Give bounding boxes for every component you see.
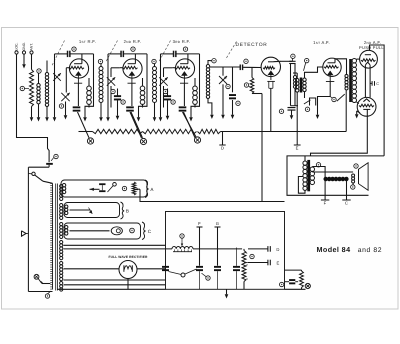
box A pickup coil — [62, 184, 65, 187]
output transformer secondary — [310, 167, 314, 171]
interstage coil label (x=78.5) [1st RF] — [98, 59, 102, 63]
field coil winding — [324, 177, 327, 180]
speaker cone — [359, 163, 369, 191]
bottom bus left segment — [58, 288, 166, 290]
interstage transformer T1 core — [300, 78, 303, 93]
capacitor E — [248, 262, 268, 264]
box B brace — [121, 202, 125, 219]
resistor R1 label circle — [20, 86, 24, 90]
triode tube V132 [2nd RF] — [123, 59, 142, 78]
triode tube V184.5 [3rd RF] — [175, 59, 194, 78]
rectifier filament wire 1 — [64, 279, 166, 281]
output section box — [287, 156, 384, 195]
cathode lead below tube (x=78.5) [1st RF] — [77, 83, 79, 106]
tuning cap label (x=78.5) [1st RF] — [59, 104, 63, 108]
rectifier filament wire 2 — [64, 284, 166, 286]
screen bypass capacitor (x=167) — [167, 89, 169, 96]
tuning capacitor (x=132) [2nd RF] — [107, 77, 115, 85]
heater box A outline — [61, 180, 147, 197]
svg-text:2: 2 — [246, 263, 248, 267]
capacitor block 1 — [162, 266, 169, 268]
shield dashed line stage 1 — [52, 41, 65, 67]
svg-text:ANT.: ANT. — [30, 43, 34, 50]
bus wire to output section — [221, 131, 347, 133]
ground arrow under L2 — [46, 113, 48, 118]
svg-text:D: D — [221, 146, 224, 151]
terminal GND. — [22, 51, 25, 54]
svg-text:Model 84: Model 84 — [317, 245, 351, 254]
heater box B outline — [64, 203, 120, 218]
bias resistor section 1 — [93, 129, 143, 133]
power transformer secondary group 5 — [60, 262, 63, 265]
svg-text:3: 3 — [246, 277, 248, 281]
voice coil label bottom — [351, 185, 355, 189]
ground arrow screen bypass (x=167) — [167, 113, 169, 116]
T2 secondary bottom grid wire — [357, 102, 359, 104]
wire left drop of stage (x=78.5) [1st RF] — [54, 54, 56, 113]
junction circle J2 — [140, 138, 146, 144]
ground arrow detector bypass — [232, 113, 234, 115]
grid bus wire top (x=78.5) [1st RF] — [55, 53, 68, 55]
grid bus vertical right (x=78.5) [1st RF] — [85, 54, 94, 113]
power switch — [29, 166, 50, 168]
grid leak label circle — [244, 83, 248, 87]
svg-text:1ST A.F.: 1ST A.F. — [313, 40, 330, 45]
power transformer core — [55, 184, 57, 291]
1st AF cathode wire — [318, 82, 331, 113]
ground arrow grid-bus (x=132) [2nd RF] — [138, 113, 140, 118]
pilot lamp — [111, 227, 122, 235]
grid lead wire (x=78.5) [1st RF] — [65, 68, 67, 93]
resistor R1 antenna — [30, 70, 34, 107]
tuning cap label (x=184.5) [3rd RF] — [163, 89, 167, 93]
pilot lamp terminal — [130, 228, 135, 233]
B+ feed vertical to bottom section — [261, 94, 263, 202]
rectifier plate feed left — [64, 268, 120, 270]
shield dashed line stage 3 — [159, 41, 171, 63]
box C coil — [65, 226, 68, 229]
tuning cap lead (x=78.5) [1st RF] — [65, 102, 67, 113]
detector tube V4 — [261, 57, 280, 76]
svg-text:FULL WAVE RECTIFIER: FULL WAVE RECTIFIER — [109, 255, 148, 259]
1st AF tube V5 — [323, 58, 341, 76]
svg-text:F: F — [198, 221, 201, 226]
box A brace — [145, 180, 149, 198]
bias bypass capacitor (x=78.5) [1st RF] — [73, 106, 81, 108]
detector grid wire — [210, 66, 240, 68]
cathode lead below tube (x=132) [2nd RF] — [131, 83, 133, 106]
filament ground arrow below V7 — [357, 111, 360, 113]
svg-text:and 82: and 82 — [358, 247, 382, 254]
detector filter left branch — [290, 64, 292, 106]
ground arrow GND — [23, 63, 25, 65]
detector bypass ground lead — [232, 100, 234, 113]
filter choke — [172, 246, 193, 248]
capacitor C between filaments — [370, 82, 371, 84]
grid capacitor above tube (x=184.5) [3rd RF] — [173, 51, 175, 57]
tuning cap label (x=132) [2nd RF] — [111, 89, 115, 93]
svg-text:E: E — [296, 146, 299, 151]
bleeder resistor — [243, 249, 245, 251]
bias resistor section 2 — [143, 129, 197, 133]
bottom plate wire down — [311, 109, 368, 155]
coil L1 primary — [38, 73, 40, 83]
B+ bus top — [140, 189, 285, 201]
box C brace — [142, 222, 146, 240]
wire R1 to ground — [31, 107, 33, 113]
bottom box label circle 2 — [250, 254, 254, 258]
diag wire stage2 cap to J2 — [130, 112, 142, 138]
detector coil — [207, 60, 209, 65]
terminal ANT. — [30, 51, 33, 54]
screen bypass cap label (x=117) — [121, 100, 125, 104]
power transformer secondary group 4 — [60, 241, 63, 244]
detector tuning cap ground lead — [222, 84, 224, 112]
ground arrow tuning cap (x=78.5) [1st RF] — [65, 113, 67, 116]
detector grid return — [232, 67, 234, 92]
line switch cap label — [54, 154, 58, 158]
detector tuning cap label — [226, 84, 230, 88]
output primary bottom lead — [298, 177, 305, 194]
shield dashed line detector — [226, 42, 237, 60]
detector bypass capacitor — [229, 94, 236, 96]
push-pull top tube filament legs — [364, 65, 366, 97]
grid bus wire top (x=184.5) [3rd RF] — [161, 53, 174, 55]
coupling capacitor to 1st AF — [289, 60, 295, 62]
detector output ground — [291, 110, 293, 113]
1st AF plate wire to T2 — [335, 59, 347, 75]
detector coil top terminal — [212, 59, 216, 63]
grid bias resistor — [301, 269, 303, 272]
1st AF cathode label — [332, 97, 336, 101]
line switch capacitor — [46, 163, 53, 165]
label circle coil L1 — [37, 69, 41, 73]
ground arrow 1st AF cathode — [317, 113, 319, 115]
ground arrow under L1 — [38, 113, 40, 118]
power transformer primary winding — [52, 184, 54, 290]
tuning capacitor (x=78.5) [1st RF] — [61, 93, 69, 101]
diag wire stage3 cap to J3 — [183, 112, 197, 137]
svg-text:2ND R.F.: 2ND R.F. — [124, 39, 142, 44]
field coil left ground F — [324, 181, 326, 200]
capacitor block 2 — [196, 266, 203, 268]
rectifier plate feed right — [137, 268, 166, 270]
detector grid wire 2 — [243, 66, 261, 68]
wire ANT lead — [31, 54, 33, 69]
filter capacitor G — [215, 226, 221, 228]
wire left drop of stage (x=184.5) [3rd RF] — [160, 54, 162, 113]
box A resistor — [132, 182, 136, 195]
wire left drop of stage (x=132) [2nd RF] — [107, 54, 109, 113]
grid bias switch box — [310, 98, 316, 106]
diagonal wire to bus junction (x=184.5) [3rd RF] — [184, 112, 196, 138]
diagonal wire to bus junction (x=78.5) [1st RF] — [78, 112, 90, 138]
rectifier tube V8 — [119, 261, 137, 279]
grid bias label left — [280, 282, 284, 286]
ground arrow grid-bus (x=78.5) [1st RF] — [84, 113, 86, 118]
detector output cap label — [279, 109, 283, 113]
voice coil wire — [312, 171, 314, 173]
svg-text:DETECTOR: DETECTOR — [236, 42, 268, 48]
junction circle J1 — [87, 138, 93, 144]
svg-text:D: D — [276, 247, 279, 252]
T1 secondary top label — [305, 58, 309, 62]
capacitor block 3 — [214, 266, 221, 268]
cathode lead below tube (x=184.5) [3rd RF] — [183, 83, 185, 106]
aerial jack symbol — [22, 231, 27, 236]
tuning capacitor (x=184.5) [3rd RF] — [159, 77, 167, 85]
svg-text:E: E — [276, 261, 279, 266]
box A label circle — [122, 186, 126, 190]
volume control resistor — [198, 129, 221, 133]
filter choke label — [180, 234, 184, 238]
box C wire — [70, 230, 110, 232]
svg-text:3RD R.F.: 3RD R.F. — [173, 39, 191, 44]
secondary wire to field coil — [312, 167, 325, 178]
svg-text:1: 1 — [246, 251, 248, 255]
plate coil (x=78.5) [1st RF] — [88, 78, 90, 86]
grid lead wire (x=132) [2nd RF] — [111, 67, 120, 69]
svg-text:C: C — [345, 201, 348, 206]
ground arrow screen bypass (x=117) — [117, 113, 119, 116]
transformer T2 secondary winding — [352, 59, 356, 63]
output transformer primary — [304, 156, 306, 161]
plate coil (x=132) [2nd RF] — [142, 78, 144, 86]
junction circle J3 — [194, 137, 200, 143]
ground arrow left drop (x=78.5) [1st RF] — [54, 113, 56, 118]
capacitor D — [248, 248, 268, 250]
power transformer secondary group 3 — [60, 223, 63, 226]
diagonal wire to bus junction (x=132) [2nd RF] — [131, 112, 143, 138]
detector tuning capacitor — [219, 76, 227, 84]
screen bypass capacitor (x=117) — [117, 89, 119, 96]
wire GND lead — [23, 54, 25, 62]
grid bus vertical right (x=132) [2nd RF] — [139, 54, 148, 113]
field coil right ground C — [346, 181, 348, 200]
grid capacitor above tube (x=132) [2nd RF] — [120, 51, 122, 57]
detector plate wire — [274, 60, 281, 62]
svg-text:C: C — [376, 82, 379, 86]
heater box C outline — [64, 223, 141, 239]
bias bypass capacitor (x=184.5) [3rd RF] — [179, 106, 187, 108]
detector grid capacitor — [239, 65, 241, 71]
detector bypass label — [236, 101, 240, 105]
T2 secondary top grid wire — [357, 58, 361, 60]
grid bus vertical right (x=184.5) [3rd RF] — [191, 54, 200, 113]
ground arrow under interstage coil (x=78.5) [1st RF] — [100, 113, 102, 118]
svg-text:B: B — [126, 209, 129, 214]
bottom section box — [166, 212, 285, 290]
transformer T2 primary winding — [345, 74, 348, 77]
filter capacitor F — [197, 226, 203, 228]
choke feed wire — [64, 248, 173, 250]
push-pull bottom tube V7 — [357, 97, 376, 116]
voice coil label top — [354, 164, 358, 168]
detector plate resistor — [251, 67, 253, 78]
transformer bottom label — [45, 294, 49, 298]
top plate wire right — [370, 45, 385, 156]
interstage coil (x=78.5) [1st RF] — [100, 64, 102, 67]
B+ riser from bus corner — [345, 90, 347, 132]
detector grid cap label — [244, 59, 248, 63]
svg-text:GND.: GND. — [22, 42, 26, 51]
grid lead wire (x=184.5) [3rd RF] — [164, 67, 173, 69]
grid bias label right — [305, 283, 310, 288]
box A capacitors — [99, 183, 105, 185]
rectifier output lead — [127, 279, 129, 290]
bias bypass capacitor (x=132) [2nd RF] — [126, 106, 134, 108]
detector tuning cap lead — [222, 67, 224, 76]
transformer bottom terminal — [34, 274, 39, 279]
bleeder tap ticks — [244, 262, 248, 264]
box A wiper arrow — [90, 188, 100, 190]
detector filter right branch — [294, 64, 296, 76]
ground arrow under R1 — [31, 113, 33, 118]
push-pull top tube V6 — [360, 50, 378, 68]
voice coil — [352, 174, 355, 177]
svg-text:PUSH PULL: PUSH PULL — [359, 45, 384, 50]
grid capacitor above tube (x=78.5) [1st RF] — [67, 51, 69, 57]
wire LOC down-left long — [17, 54, 50, 162]
1st AF grid wire — [305, 67, 323, 78]
box A switch — [113, 183, 117, 187]
interstage coil (x=132) [2nd RF] — [154, 64, 156, 67]
grid bias resistor wire — [285, 269, 302, 271]
terminal LOC. — [15, 51, 18, 54]
grid bias capacitor — [285, 281, 289, 283]
grid bus wire top (x=132) [2nd RF] — [108, 53, 121, 55]
ground arrow under interstage coil (x=132) [2nd RF] — [154, 113, 156, 118]
svg-text:F: F — [324, 201, 327, 206]
box B wire with arrow — [70, 209, 91, 211]
ground arrow bottom box — [226, 289, 228, 291]
choke output wire — [193, 248, 242, 250]
bias bus wire tail — [79, 131, 93, 133]
screen bypass cap label (x=167) — [171, 100, 175, 104]
tuning cap lead (x=132) [2nd RF] — [110, 86, 112, 108]
detector output capacitor — [288, 107, 296, 109]
ground D below volume control — [222, 132, 224, 146]
triode tube V78.5 [1st RF] — [69, 59, 88, 78]
B+ line upper — [64, 244, 166, 246]
box B coil — [65, 205, 68, 208]
antenna trimmer capacitor — [53, 73, 61, 81]
bottom bus right segment — [285, 288, 306, 290]
plate coil (x=184.5) [3rd RF] — [194, 78, 196, 86]
ground arrow detector coil — [211, 113, 213, 115]
grid bias switch label — [305, 107, 309, 111]
detector cathode drop to bus — [270, 88, 272, 131]
interstage transformer T1 secondary — [303, 78, 306, 81]
power transformer secondary group 2 — [60, 204, 63, 207]
coil L2 antenna secondary — [46, 61, 48, 73]
ground arrow left drop (x=132) [2nd RF] — [107, 113, 109, 118]
ground arrow grid-bus (x=184.5) [3rd RF] — [190, 113, 192, 118]
transformer T2 core — [349, 59, 352, 102]
svg-text:1ST R.F.: 1ST R.F. — [79, 39, 96, 44]
ground arrow left drop (x=184.5) [3rd RF] — [160, 113, 162, 118]
shield dashed line stage 2 — [106, 41, 118, 63]
bottom box label circle — [206, 276, 210, 280]
T1 primary bottom lead / E ground — [296, 92, 298, 145]
svg-text:C: C — [148, 229, 152, 234]
output transformer core bar — [307, 160, 310, 191]
power transformer secondary group 1 — [60, 185, 63, 188]
interstage coil label (x=132) [2nd RF] — [152, 59, 156, 63]
capacitor block 4 — [233, 266, 240, 268]
tuning cap lead (x=184.5) [3rd RF] — [163, 86, 165, 108]
interstage transformer T1 primary — [296, 79, 299, 82]
power transformer secondary group 6 — [60, 282, 63, 285]
detector plate junction label — [291, 54, 295, 58]
switch in bottom box — [181, 273, 185, 277]
svg-text:G: G — [216, 221, 220, 226]
ground arrow detector tuning — [222, 113, 224, 115]
svg-text:LOC.: LOC. — [15, 43, 19, 51]
output transformer label — [316, 163, 320, 167]
